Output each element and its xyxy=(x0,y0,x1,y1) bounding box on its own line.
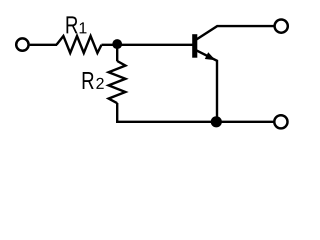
transistor Q1 base bar xyxy=(192,34,197,58)
node A (junction dot) xyxy=(112,39,122,49)
wire: node A down to R2 xyxy=(116,44,118,61)
label R2 xyxy=(83,72,104,89)
terminal (top right) xyxy=(275,20,288,33)
transistor Q1 emitter wire down to bottom rail xyxy=(196,50,217,122)
wire: left terminal to R1 xyxy=(30,44,57,46)
junction (emitter to bottom rail) xyxy=(211,116,222,127)
label R1 xyxy=(66,16,86,33)
wire: R2 bottom elbow to bottom rail xyxy=(117,103,274,122)
emitter arrowhead xyxy=(205,52,216,60)
resistor R2 xyxy=(109,61,126,103)
transistor Q1 collector wire to top terminal xyxy=(196,26,275,40)
wire: R1 to transistor base (node A on it) xyxy=(102,44,193,46)
resistor R1 xyxy=(57,36,102,53)
terminal (input, left) xyxy=(16,38,28,50)
terminal (bottom right) xyxy=(274,115,287,128)
